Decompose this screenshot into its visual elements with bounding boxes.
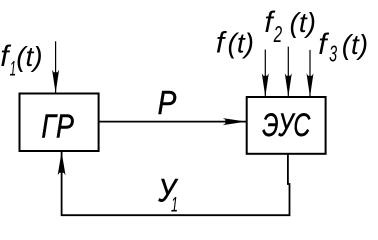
- svg-text:2: 2: [273, 21, 282, 47]
- svg-text:3: 3: [329, 41, 337, 67]
- svg-text:(t): (t): [342, 29, 368, 60]
- svg-text:(t): (t): [290, 7, 316, 38]
- wire feedback from EUS bottom: [62, 152, 290, 215]
- arrowhead f3: [307, 73, 314, 97]
- wire P from GR to EUS: [100, 121, 247, 123]
- svg-text:f: f: [216, 27, 227, 60]
- svg-text:Р: Р: [158, 85, 177, 122]
- svg-text:(t): (t): [16, 41, 42, 72]
- wire f2 into EUS top: [287, 47, 289, 97]
- wire f into EUS top: [264, 50, 266, 97]
- arrowhead P: [223, 118, 247, 125]
- block GR (ГР): [20, 94, 99, 152]
- arrowhead feedback into GR bottom: [58, 152, 66, 176]
- wire f3 into EUS top: [309, 50, 311, 97]
- wire f1 into GR top: [55, 41, 57, 92]
- arrowhead f2: [285, 73, 292, 97]
- svg-text:1: 1: [10, 57, 17, 81]
- svg-text:(t): (t): [228, 28, 254, 59]
- arrowhead f: [262, 73, 269, 97]
- svg-text:1: 1: [171, 194, 178, 217]
- svg-text:ЭУС: ЭУС: [262, 107, 311, 143]
- arrowhead f1: [52, 70, 59, 94]
- svg-text:ГР: ГР: [41, 109, 73, 146]
- svg-text:f: f: [318, 28, 329, 61]
- block EUS (ЭУС): [247, 97, 326, 154]
